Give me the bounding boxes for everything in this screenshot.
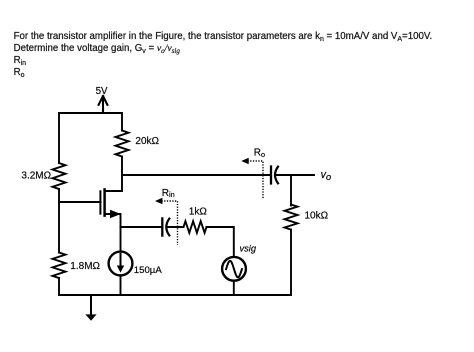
resistor R 20k zigzag [116,131,129,157]
Ro arrowhead [241,158,248,164]
svg-text:20kΩ: 20kΩ [135,136,159,147]
wire left rail lower [58,278,60,295]
wire vsig to bottom rail [233,281,235,295]
capacitor C2 output curved plate [275,167,278,184]
current source I1 arrow shaft [120,254,122,267]
resistor R 10k zigzag [285,205,298,230]
vsig source circle [222,257,246,281]
transistor Q1 channel bar [103,189,106,215]
svg-text:1.8MΩ: 1.8MΩ [70,261,100,272]
wire current source lower lead [120,275,122,295]
wire drain lead [105,175,122,191]
wire current source upper lead [120,227,122,252]
vsig sine wave [226,261,242,277]
wire 20k lower lead [121,157,123,176]
wire gate [59,201,100,203]
svg-text:vsig: vsig [240,244,257,254]
resistor R 1.8M zigzag [53,253,66,279]
svg-text:1kΩ: 1kΩ [189,207,208,218]
wire source lead [105,214,121,227]
svg-text:10kΩ: 10kΩ [305,211,329,222]
wire left rail upper [58,113,60,163]
capacitor C2 output flat plate [270,167,272,184]
transistor Q1 gate bar [99,191,101,213]
resistor R 1k zigzag [184,221,207,233]
wire output cap to vo [276,174,314,176]
wire 20k upper lead [121,113,123,131]
wire 1k to vsig [207,227,234,257]
wire left rail middle [58,189,60,253]
wire cap to 1k resistor [168,226,184,228]
wire input horizontal [121,226,162,228]
svg-text:vo: vo [321,169,332,182]
wire output node to 10k [290,175,292,206]
5V supply arrow shaft and barbs [99,96,108,113]
wire 10k to bottom rail [290,230,292,296]
svg-text:5V: 5V [96,86,108,97]
current source I1 circle [109,252,133,276]
Rin dashed measurement line [162,201,178,245]
resistor R 3.2M zigzag [53,163,66,189]
wire top rail [59,112,122,114]
current source I1 arrowhead [117,266,124,273]
capacitor C1 input flat plate [161,218,163,235]
ground arrowhead [85,314,96,320]
problem statement text [14,31,433,78]
svg-text:150µA: 150µA [134,265,163,276]
svg-text:Rin: Rin [162,188,175,199]
wire drain output horizontal [122,174,270,176]
svg-text:Ro: Ro [254,148,265,159]
transistor Q1 source arrowhead [110,210,121,219]
svg-text:3.2MΩ: 3.2MΩ [21,171,51,182]
Ro dashed measurement line [248,161,264,198]
Rin arrowhead [155,198,162,204]
wire bottom rail [59,294,291,296]
capacitor C1 input curved plate [166,219,169,236]
ground arrow shaft [90,295,92,315]
